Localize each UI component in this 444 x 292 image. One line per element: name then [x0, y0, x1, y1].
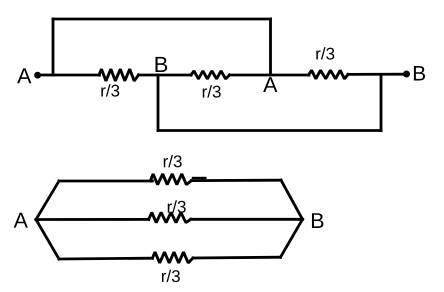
- wire: resistor R2 to resistor R3 (through node A mid): [230, 74, 310, 77]
- wire: bottom loop right vertical up to main wire: [380, 75, 383, 131]
- wire: node B vertical down: [157, 75, 160, 131]
- wire: stub tick after R4: [193, 177, 205, 179]
- value label r/3 of R6: [162, 270, 180, 282]
- value label r/3 of R5: [168, 200, 186, 212]
- value label r/3 of R3: [316, 47, 334, 59]
- wire: terminal A to resistor R1: [38, 74, 100, 77]
- wire: top loop left vertical (node A up): [52, 19, 55, 75]
- wire: bottom branch right horizontal: [193, 256, 281, 260]
- wire: diagonal up to node B: [281, 219, 303, 257]
- wire: node A diagonal down to bottom branch: [36, 220, 59, 260]
- wire: bottom loop horizontal: [158, 129, 381, 132]
- value label r/3 of R2: [203, 85, 221, 97]
- node label B (bottom circuit, right): [312, 213, 323, 228]
- resistor R2 r/3: [191, 71, 230, 79]
- resistor R6 r/3 (bottom branch): [152, 252, 193, 263]
- node label B (right terminal): [414, 66, 425, 80]
- wire: top branch right horizontal: [191, 179, 281, 182]
- wire: bottom branch left horizontal: [59, 257, 152, 261]
- node label A (bottom circuit, left): [14, 213, 28, 228]
- wire: top loop horizontal: [53, 18, 271, 21]
- resistor R4 r/3 (top branch): [150, 174, 191, 185]
- wire: middle branch left horizontal: [36, 218, 149, 221]
- wire: resistor R1 to resistor R2 (through node B): [139, 74, 192, 77]
- wire: diagonal down to node B: [281, 180, 303, 219]
- node label A (junction below wire): [263, 77, 277, 92]
- wire: top loop right vertical (down to node A mid): [269, 19, 272, 75]
- resistor R1 r/3: [99, 69, 139, 81]
- wire: middle branch right horizontal: [191, 218, 303, 221]
- wire: resistor R3 to terminal B: [348, 73, 406, 76]
- terminal dot A: [34, 72, 41, 79]
- wire: top branch left horizontal: [59, 180, 152, 183]
- resistor R5 r/3 (middle branch): [149, 212, 191, 222]
- node label B (junction above wire): [156, 57, 168, 72]
- terminal dot B: [403, 71, 410, 78]
- value label r/3 of R4: [164, 155, 182, 167]
- node label A (left terminal): [17, 68, 31, 83]
- wire: node A diagonal up to top branch: [36, 181, 59, 220]
- resistor R3 r/3: [309, 70, 348, 79]
- value label r/3 of R1: [101, 84, 119, 96]
